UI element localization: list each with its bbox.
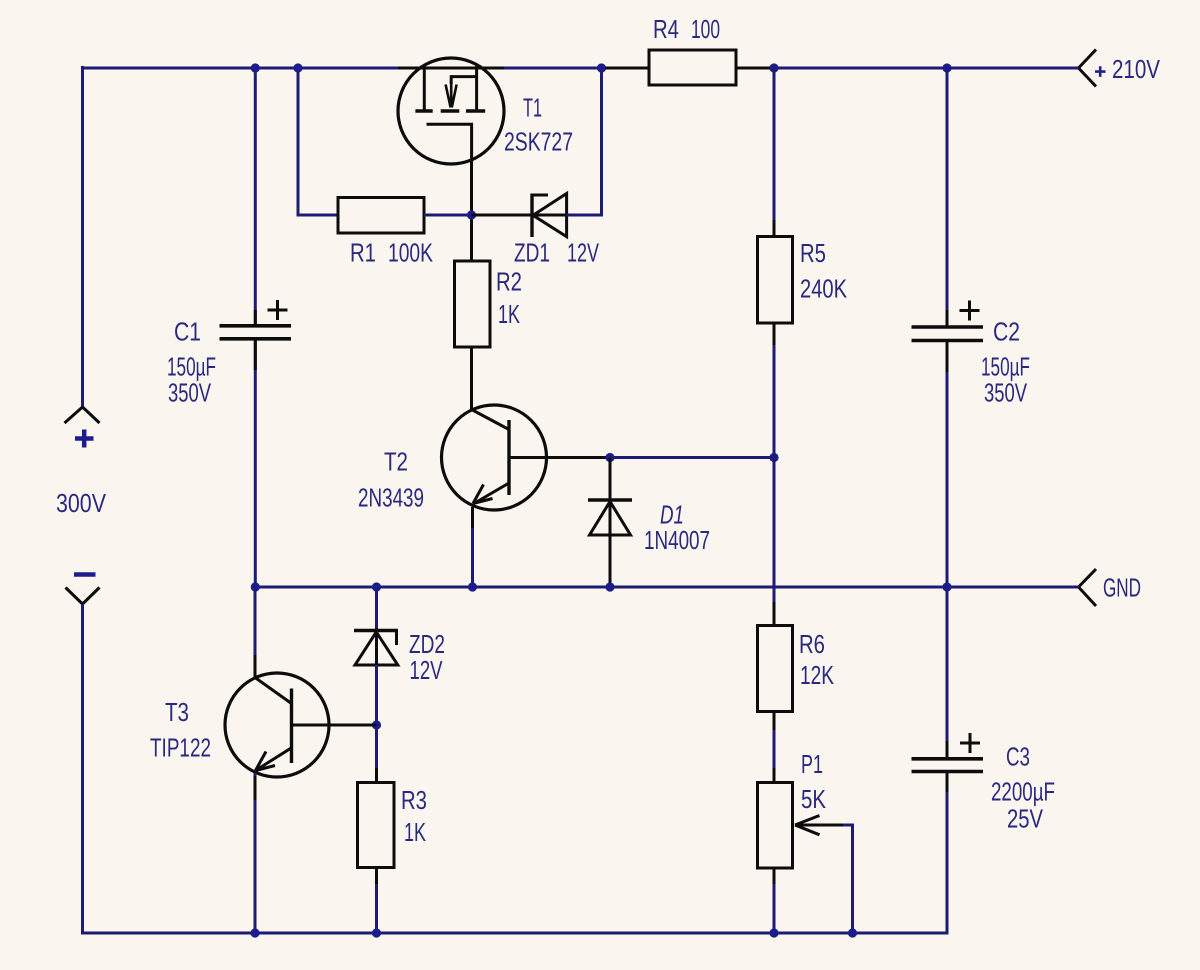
label P1 value 5K (801, 784, 827, 814)
capacitor C1 (220, 300, 292, 339)
svg-text:25V: 25V (1007, 804, 1044, 834)
label C3 value 25V (1007, 804, 1044, 834)
wire C3 lead stubs (946, 741, 949, 792)
label R2 (496, 267, 522, 297)
svg-text:R4: R4 (653, 14, 679, 44)
node junction GND C2 C3 (942, 582, 951, 591)
svg-text:R3: R3 (401, 785, 427, 815)
svg-text:12K: 12K (800, 660, 834, 690)
wire bottom rail (82, 932, 947, 935)
wire R3 lead stubs (375, 768, 378, 884)
svg-text:R5: R5 (800, 238, 826, 268)
wire T2 emitter stub (471, 507, 474, 528)
label ZD1 value 12V (567, 238, 599, 268)
label R6 (799, 629, 825, 659)
wire C3 top lead from GND (946, 587, 949, 758)
label C3 value 2200uF (991, 777, 1055, 807)
svg-text:T2: T2 (384, 447, 408, 477)
wire GND rail (256, 586, 1079, 589)
svg-text:5K: 5K (801, 784, 827, 814)
label ZD1 (514, 238, 550, 268)
wire ZD1 cathode lead and riser to top rail (567, 69, 602, 215)
svg-text:C3: C3 (1006, 742, 1030, 772)
wire P1 bottom lead to bottom rail (773, 868, 776, 933)
resistor R3 (358, 783, 395, 868)
resistor R1 (338, 198, 424, 234)
terminal +210V output (1079, 50, 1097, 87)
wire R6 lead stubs (773, 602, 776, 730)
wire P1 wiper down to bottom rail (843, 825, 853, 933)
svg-text:C2: C2 (993, 317, 1020, 347)
node junction base row R5 column (769, 453, 778, 462)
wire P1 lead stubs (773, 768, 776, 884)
capacitor C2 (912, 301, 984, 341)
wire R1 riser from top rail (298, 66, 338, 215)
svg-text:C1: C1 (174, 317, 201, 347)
label P1 (801, 749, 823, 779)
wire D1 anode to GND rail (609, 535, 612, 587)
label C2 value 350V (984, 378, 1027, 408)
wire top rail +210V left of R4 (82, 67, 650, 70)
wire R6 bottom to P1 top (773, 712, 776, 784)
wire junction to ZD1 anode (472, 214, 568, 217)
capacitor C3 (912, 733, 984, 772)
label T1 (523, 93, 542, 123)
label T2 (384, 447, 408, 477)
label C3 (1006, 742, 1030, 772)
label R4 (653, 14, 679, 44)
svg-text:P1: P1 (801, 749, 823, 779)
wire C1 column upper (254, 66, 257, 325)
resistor R6 (758, 626, 793, 712)
wire R1 output lead (424, 214, 472, 217)
label T3 type TIP122 (150, 733, 211, 763)
svg-text:R2: R2 (496, 267, 522, 297)
svg-text:ZD1: ZD1 (514, 238, 550, 268)
label C2 (993, 317, 1020, 347)
wire T3 base lead (292, 724, 377, 727)
wire ZD2 cathode lead from GND (375, 587, 378, 666)
diode D1 1N4007 (588, 500, 632, 535)
svg-text:1K: 1K (498, 299, 520, 329)
node junction R3 bottom rail (372, 928, 381, 937)
label C2 value 150uF (981, 352, 1030, 382)
node junction T3 base ZD2 R3 (372, 720, 381, 729)
svg-text:TIP122: TIP122 (150, 733, 211, 763)
wire D1 cathode lead (609, 458, 612, 537)
svg-text:100: 100 (691, 14, 720, 44)
node junction top rail R1 riser (293, 63, 302, 72)
wire R4 lead stubs (605, 67, 770, 70)
transistor T3 TIP122 (225, 673, 329, 777)
label T3 (165, 697, 189, 727)
label C1 value 150uF (167, 352, 216, 382)
node junction P1 bottom rail (769, 928, 778, 937)
label R4 value 100 (691, 14, 720, 44)
wire C1 lead stubs (254, 310, 257, 370)
label R5 value 240K (800, 273, 847, 303)
node junction T3 emitter bottom rail (250, 928, 259, 937)
transistor T1 2SK727 MOSFET (398, 58, 504, 164)
wire C1 column lower (254, 339, 257, 587)
label R1 (350, 238, 376, 268)
svg-text:2SK727: 2SK727 (504, 127, 573, 157)
label ZD2 value 12V (410, 655, 443, 685)
node junction base row D1 (605, 453, 614, 462)
label 300V (56, 488, 107, 518)
label T1 type 2SK727 (504, 127, 573, 157)
label R5 (800, 238, 826, 268)
wire C2 column upper (946, 66, 949, 326)
label 210V (1112, 54, 1161, 84)
wire T3 collector from GND (254, 587, 257, 678)
label - (300V minus sign) (74, 572, 96, 577)
label C1 value 350V (168, 378, 211, 408)
wire T3 stubs (254, 655, 257, 800)
transistor T2 2N3439 (442, 405, 611, 510)
svg-text:2N3439: 2N3439 (358, 483, 424, 513)
resistor R2 (455, 261, 491, 347)
svg-text:350V: 350V (984, 378, 1027, 408)
resistor R5 (758, 237, 793, 324)
svg-text:210V: 210V (1112, 54, 1161, 84)
svg-text:T1: T1 (523, 93, 542, 123)
label C1 (174, 317, 201, 347)
node junction top rail C1 (251, 63, 260, 72)
node junction top rail R4 output (769, 63, 778, 72)
wire base row D1 to R5 column (610, 456, 774, 459)
wire C2 lead stubs (946, 310, 949, 372)
potentiometer P1 (758, 783, 846, 869)
wire top rail +210V right of R4 (735, 67, 1078, 70)
terminal + 300V input (65, 407, 100, 423)
label R3 (401, 785, 427, 815)
resistor R4 (649, 50, 736, 85)
label ZD2 (409, 629, 445, 659)
wire C3 bottom lead to bottom rail corner (946, 772, 949, 935)
terminal - 300V input (66, 588, 100, 605)
label R3 value 1K (404, 817, 426, 847)
svg-text:R6: R6 (799, 629, 825, 659)
diode ZD2 zener 12V (354, 628, 398, 666)
label + (210V small plus) (1095, 66, 1106, 77)
wire R5 bottom through GND crossing to R6 (773, 323, 776, 626)
label D1 (660, 500, 684, 530)
label + (300V plus sign) (75, 430, 94, 448)
wire C2 column lower (946, 341, 949, 587)
wire R2 bottom lead to T2 collector (470, 347, 473, 410)
node junction GND ZD2 (372, 582, 381, 591)
svg-text:T3: T3 (165, 697, 189, 727)
svg-text:1N4007: 1N4007 (644, 525, 710, 555)
svg-text:350V: 350V (168, 378, 211, 408)
wire left vertical from - terminal to bottom rail (81, 604, 84, 935)
label R6 value 12K (800, 660, 834, 690)
svg-text:300V: 300V (56, 488, 107, 518)
node junction wiper bottom rail (848, 928, 857, 937)
wire R5 lead stubs (773, 220, 776, 345)
svg-text:2200µF: 2200µF (991, 777, 1055, 807)
label R2 value 1K (498, 299, 520, 329)
wire T2 emitter to GND rail (471, 507, 474, 587)
wire T3 emitter to bottom rail (254, 773, 257, 933)
node junction top rail C2 (942, 63, 951, 72)
terminal GND output (1079, 569, 1097, 606)
node junction GND C1 (251, 582, 260, 591)
svg-text:12V: 12V (410, 655, 443, 685)
node junction top rail ZD1 riser (597, 63, 606, 72)
svg-text:100K: 100K (388, 238, 433, 268)
wire R5 column from top rail (773, 66, 776, 237)
node junction T2 emitter GND (468, 582, 477, 591)
label GND (1103, 573, 1141, 603)
label D1 type 1N4007 (644, 525, 710, 555)
label T2 type 2N3439 (358, 483, 424, 513)
wire left vertical from top rail to + terminal (81, 66, 84, 407)
node junction R1 gate ZD1 (467, 210, 476, 219)
wire ZD2 anode to T3 base junction and R3 (375, 665, 378, 783)
node junction D1 GND (605, 582, 614, 591)
svg-text:R1: R1 (350, 238, 376, 268)
wire R3 bottom to bottom rail (375, 868, 378, 934)
svg-text:240K: 240K (800, 273, 847, 303)
wire T1 gate column to junction and R2 (470, 160, 473, 261)
svg-text:12V: 12V (567, 238, 599, 268)
svg-text:GND: GND (1103, 573, 1141, 603)
label R1 value 100K (388, 238, 433, 268)
diode ZD1 zener 12V (532, 194, 567, 238)
svg-text:1K: 1K (404, 817, 426, 847)
